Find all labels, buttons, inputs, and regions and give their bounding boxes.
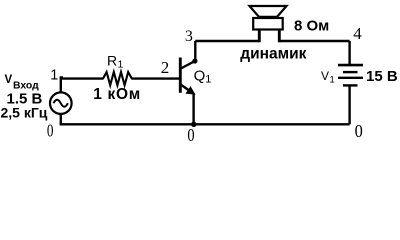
wire top-left: source to resistor [61, 77, 104, 79]
transistor Q1 base bar [179, 58, 182, 93]
svg-text:2: 2 [161, 58, 170, 77]
battery V1 top lead [348, 41, 350, 64]
label 2,5 кГц [1, 104, 48, 120]
wire source top lead [61, 77, 63, 93]
svg-text:0: 0 [187, 125, 194, 145]
svg-text:4: 4 [353, 24, 362, 43]
svg-text:1: 1 [205, 74, 211, 86]
svg-text:15 В: 15 В [366, 68, 398, 85]
label 15 В [366, 68, 398, 85]
svg-text:0: 0 [47, 121, 54, 141]
wire top: speaker to battery corner [279, 40, 350, 42]
label V_Вход [5, 74, 40, 92]
svg-text:3: 3 [185, 28, 193, 45]
node 2 [161, 58, 170, 77]
svg-text:V: V [321, 69, 329, 83]
wire top: collector to speaker [195, 40, 259, 42]
wire bottom (ground rail) [60, 123, 350, 125]
node 0 (left) [47, 121, 54, 141]
svg-text:1: 1 [50, 67, 58, 83]
node 4 [353, 24, 362, 43]
battery V1 plates [338, 65, 363, 85]
wire source bottom lead [60, 113, 62, 125]
node 1 [50, 67, 58, 83]
transistor Q1 emitter with arrow [181, 85, 195, 125]
node 0 (middle) [187, 125, 194, 145]
svg-text:Q: Q [194, 67, 206, 84]
svg-text:R: R [107, 53, 117, 69]
wire resistor to transistor base [131, 77, 179, 79]
svg-text:динамик: динамик [240, 45, 306, 62]
resistor R1 [103, 72, 132, 85]
label 8 Ом [294, 17, 329, 34]
junction emitter-ground [191, 122, 196, 127]
svg-text:0: 0 [355, 121, 363, 141]
label динамик [240, 45, 306, 62]
svg-text:1 кОм: 1 кОм [93, 86, 141, 103]
speaker cone [250, 6, 287, 17]
speaker box [253, 18, 283, 30]
battery V1 bottom lead [348, 85, 350, 124]
label 1.5 В [7, 90, 43, 107]
svg-text:1: 1 [118, 58, 124, 70]
svg-text:1: 1 [330, 75, 335, 86]
transistor Q1 collector [181, 41, 198, 69]
label R1 [107, 53, 124, 71]
label V1 [321, 69, 335, 86]
node 3 [185, 28, 193, 45]
AC source V (sine source) [50, 92, 72, 114]
speaker legs [259, 28, 279, 42]
node 0 (right) [355, 121, 363, 141]
label 1 кОм [93, 86, 141, 103]
svg-text:8 Ом: 8 Ом [294, 17, 329, 34]
svg-text:2,5 кГц: 2,5 кГц [1, 104, 48, 120]
label Q1 [194, 67, 212, 85]
svg-text:V: V [5, 74, 13, 86]
